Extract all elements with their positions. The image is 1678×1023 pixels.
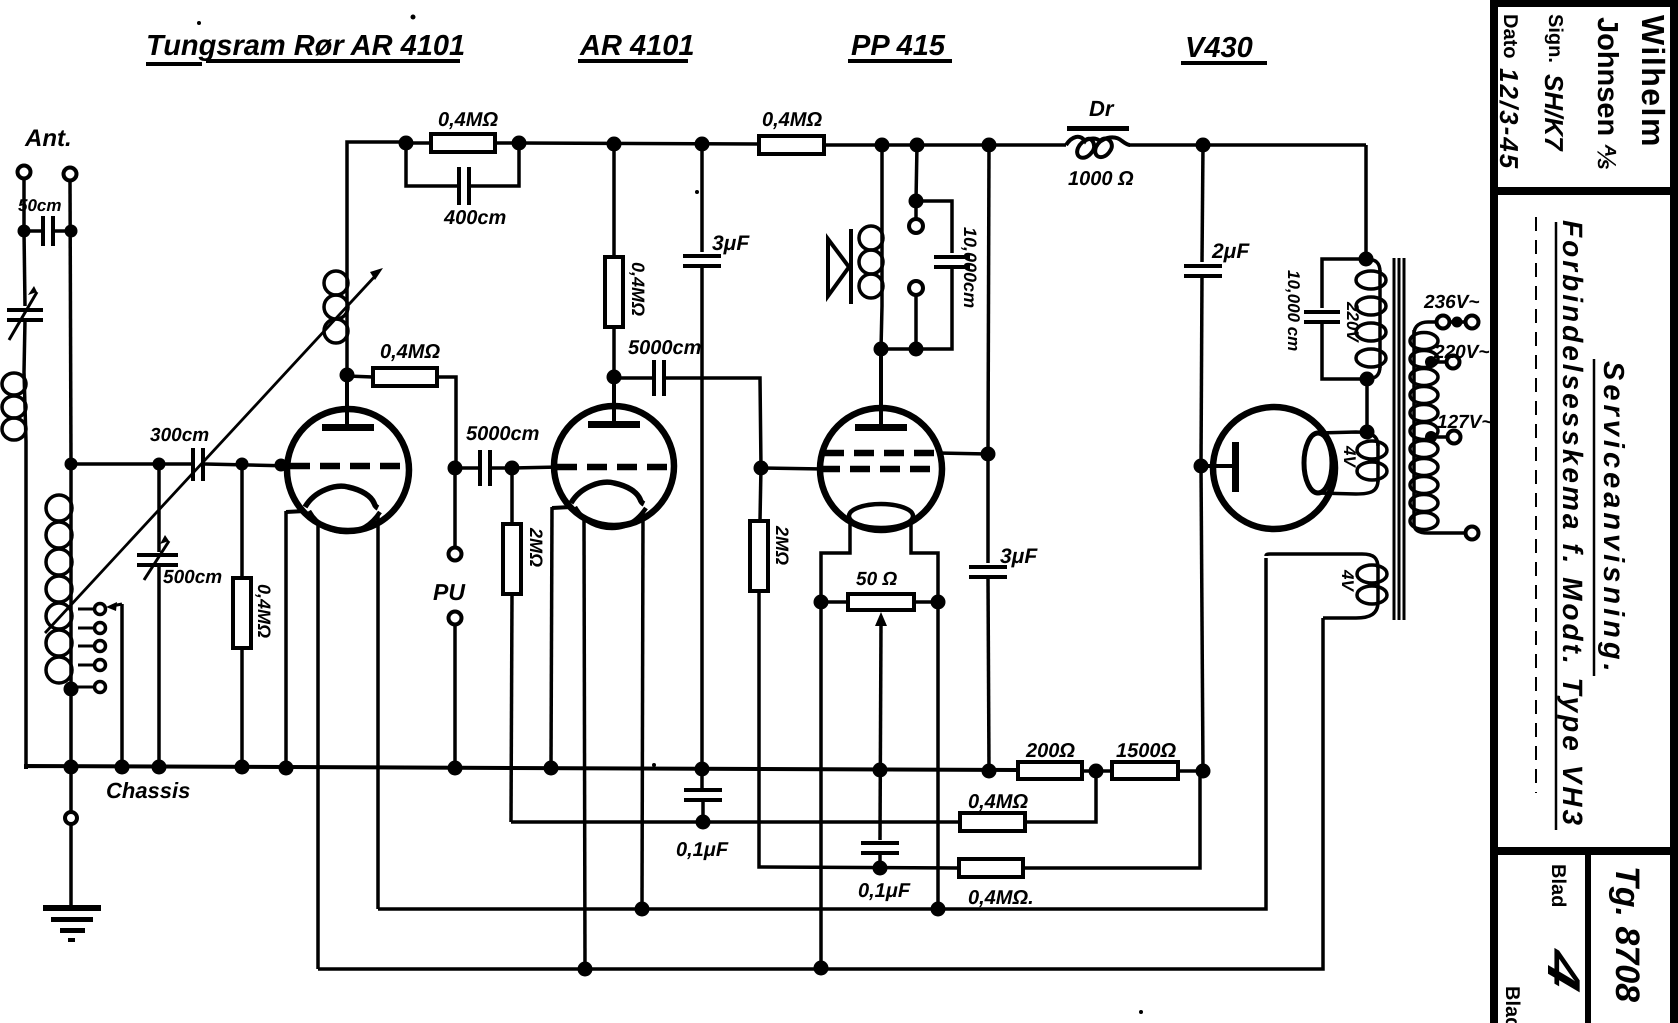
capacitor 400cm xyxy=(459,167,469,205)
svg-text:2MΩ: 2MΩ xyxy=(526,527,546,567)
wiper shaft xyxy=(880,624,881,840)
rectifier filament bottom wire xyxy=(1318,480,1378,494)
wire resistor to chassis xyxy=(240,648,244,767)
svg-text:5000cm: 5000cm xyxy=(628,337,701,359)
oscillator coil xyxy=(345,267,349,352)
svg-text:Blad: Blad xyxy=(1501,986,1523,1023)
tube V3 anode lead xyxy=(879,349,883,427)
svg-text:50 Ω: 50 Ω xyxy=(856,569,897,590)
resistor 1500 ohm xyxy=(1112,762,1178,779)
wire var cap to antenna coil xyxy=(24,320,25,372)
coil tap stub 1 xyxy=(78,608,94,611)
underline heading 2 xyxy=(578,59,688,63)
node bus x281 xyxy=(275,459,288,472)
node bias2 xyxy=(873,861,888,876)
node 50ohm right xyxy=(931,595,946,610)
wire chassis to earth xyxy=(69,767,73,812)
capacitor 5000cm a xyxy=(480,450,490,486)
jack wire lower xyxy=(914,295,918,349)
transformer core xyxy=(1394,258,1404,620)
wire node to 2M xyxy=(510,468,514,524)
wire rail to 3uF xyxy=(700,145,704,252)
svg-text:0,4MΩ: 0,4MΩ xyxy=(628,262,648,316)
svg-text:300cm: 300cm xyxy=(150,425,209,446)
node bus x71 xyxy=(65,458,78,471)
capacitor 3uF screen xyxy=(969,567,1007,577)
link dot 236V xyxy=(1452,317,1463,328)
tube V3 anode plate xyxy=(855,424,907,431)
node chassis x455 xyxy=(448,761,463,776)
capacitor 50cm xyxy=(24,216,71,246)
svg-text:220V: 220V xyxy=(1343,301,1362,343)
wire anode node to cap xyxy=(614,376,652,380)
wire V2 filament leg left xyxy=(584,520,585,969)
capacitor 2uF xyxy=(1184,266,1222,276)
PU terminal lower xyxy=(449,612,462,625)
wire cap to node xyxy=(455,466,512,470)
node primary top xyxy=(1359,252,1374,267)
bias line 1 wire xyxy=(511,820,960,824)
svg-text:Ant.: Ant. xyxy=(24,125,72,152)
node rail screen xyxy=(982,138,997,153)
secondary bottom lead xyxy=(1428,531,1466,535)
wire right antenna drop xyxy=(70,180,71,464)
coil tap stub 2 xyxy=(78,627,94,630)
svg-text:0,1μF: 0,1μF xyxy=(676,839,729,861)
tap 220V wire xyxy=(1431,360,1447,364)
tube V2 grid dashed xyxy=(557,464,674,471)
svg-text:Dr: Dr xyxy=(1089,96,1115,121)
svg-text:Blad: Blad xyxy=(1547,864,1569,907)
wire cap to tube3 grid node xyxy=(666,378,761,468)
node fil lower tube3 xyxy=(814,961,829,976)
ground symbol xyxy=(43,905,101,942)
filament bus lower wire xyxy=(318,618,1323,969)
wire V2 filament leg right xyxy=(642,512,643,909)
coil tap circle 5 xyxy=(95,682,106,693)
node fil lower tube2 xyxy=(578,962,593,977)
tube V1 cathode stub xyxy=(286,511,305,512)
capacitor 0.1uF b xyxy=(861,843,899,853)
coil tap circle 2 xyxy=(95,623,106,634)
underline Serviceanvisning xyxy=(1593,359,1596,676)
node chassis x286 xyxy=(279,761,294,776)
underline heading 1b xyxy=(206,59,460,63)
coil tap stub 3 xyxy=(78,645,94,648)
svg-text:127V~: 127V~ xyxy=(1437,412,1492,433)
node 0.1uF bottom xyxy=(696,815,711,830)
svg-text:Johnsen ⅍: Johnsen ⅍ xyxy=(1591,17,1623,169)
svg-text:0,4MΩ.: 0,4MΩ. xyxy=(968,887,1034,909)
svg-text:200Ω: 200Ω xyxy=(1025,740,1075,762)
wire V2 cathode to chassis xyxy=(551,507,552,768)
terminal 236V circle b xyxy=(1466,316,1479,329)
wire cap to bottom node xyxy=(916,267,952,349)
tube V2 cathode arc xyxy=(571,482,644,504)
wire rail to anode resistor xyxy=(612,145,616,257)
wire jack top to cap branch xyxy=(916,201,952,253)
ganged tuning arrow line xyxy=(45,268,383,633)
wire rail to primary top xyxy=(1364,145,1368,259)
wire avc1 to divider node xyxy=(1025,771,1096,822)
capacitor 0.1uF a xyxy=(684,790,722,800)
wiper arrowhead xyxy=(875,612,887,626)
wire rail segment a xyxy=(406,141,431,145)
primary winding 220V xyxy=(1366,259,1380,379)
coil tap stub 5 xyxy=(76,686,94,689)
wire antenna coil to chassis corner xyxy=(24,441,28,769)
node chassis x880 xyxy=(873,763,888,778)
wire osc riser to rail xyxy=(347,142,406,267)
secondary top lead xyxy=(1414,322,1437,334)
wire B+ drop mid xyxy=(1201,276,1202,466)
tube V2 filament arc xyxy=(575,507,646,528)
node 50ohm left xyxy=(814,595,829,610)
secondary winding mains xyxy=(1412,330,1416,524)
wire chassis bus xyxy=(26,766,1018,770)
node rectifier anode xyxy=(1194,459,1209,474)
capacitor 10000cm mains xyxy=(1304,312,1340,322)
node rail jack xyxy=(910,138,925,153)
node jack bottom xyxy=(909,342,924,357)
capacitor 300cm xyxy=(193,448,203,481)
node coupling right xyxy=(505,461,520,476)
svg-text:3μF: 3μF xyxy=(1000,545,1038,568)
underline heading 3 xyxy=(848,59,952,63)
wire 2M down to bias line xyxy=(511,594,512,822)
node fil upper tube3 xyxy=(931,902,946,917)
title block top border xyxy=(1494,0,1678,7)
underline heading 4 xyxy=(1181,61,1267,65)
resistor 2M det xyxy=(750,521,768,591)
node bus x159 xyxy=(153,458,166,471)
svg-text:10,000cm: 10,000cm xyxy=(960,227,980,308)
tube V2 anode plate xyxy=(588,421,640,428)
tube V1 filament arc xyxy=(309,511,380,532)
node chassis x702 xyxy=(695,762,710,777)
svg-text:1500Ω: 1500Ω xyxy=(1116,740,1176,762)
node coil bottom xyxy=(64,682,79,697)
speaker cone xyxy=(828,239,849,296)
svg-text:Dato: Dato xyxy=(1499,14,1521,58)
earth connector circle xyxy=(65,812,77,824)
svg-text:V430: V430 xyxy=(1185,32,1253,64)
capacitor 400cm branch wires xyxy=(406,143,519,186)
wire grid bus y464 xyxy=(71,464,292,466)
node coupling left xyxy=(448,461,463,476)
svg-text:50cm: 50cm xyxy=(18,196,61,215)
tube V4 anode plate xyxy=(1232,442,1239,492)
tap selector wire xyxy=(112,604,122,606)
PU terminal upper xyxy=(449,548,462,561)
tap 220V dot xyxy=(1425,356,1437,368)
node chassis x242 xyxy=(235,760,250,775)
svg-text:10,000 cm: 10,000 cm xyxy=(1284,270,1303,351)
antenna coil xyxy=(2,372,26,441)
node anode branch xyxy=(874,342,889,357)
wire V1 filament leg right xyxy=(376,516,380,909)
tube V1 envelope xyxy=(287,409,409,531)
tube V3 screen grid dashed xyxy=(824,450,941,457)
wire 3uF to chassis xyxy=(700,266,704,768)
wire filament to primary bottom xyxy=(1365,379,1369,432)
svg-text:0,1μF: 0,1μF xyxy=(858,880,911,902)
winding 4V heater coil xyxy=(1376,566,1380,604)
title block divider 1 xyxy=(1494,187,1678,195)
title block vertical divider xyxy=(1585,851,1591,1023)
tap selector arrowhead xyxy=(106,602,117,611)
resistor 0.4M avc2 xyxy=(959,859,1023,877)
terminal 220V xyxy=(1447,356,1460,369)
svg-text:Serviceanvisning.: Serviceanvisning. xyxy=(1597,361,1629,676)
wire 200 to node xyxy=(1082,769,1096,773)
node tube3 grid xyxy=(754,461,769,476)
node jack top xyxy=(909,194,924,209)
wire 50ohm leads xyxy=(821,600,938,604)
svg-text:4: 4 xyxy=(1538,942,1590,997)
wire osc node to resistor xyxy=(347,376,373,377)
wire avc2 to divider right xyxy=(1023,771,1200,868)
svg-text:Tungsram Rør AR 4101: Tungsram Rør AR 4101 xyxy=(146,30,465,62)
svg-text:4V: 4V xyxy=(1338,569,1357,592)
tube V1 anode lead xyxy=(345,375,349,427)
link 236V xyxy=(1450,320,1466,324)
terminal 127V xyxy=(1448,431,1461,444)
jack wire to contact xyxy=(914,201,918,219)
svg-text:1000 Ω: 1000 Ω xyxy=(1068,168,1134,190)
filament bus upper wire xyxy=(378,558,1266,909)
title block right border xyxy=(1670,0,1678,1023)
resistor 0.4M grid leak tube1 xyxy=(233,578,251,648)
svg-text:Wilhelm: Wilhelm xyxy=(1635,15,1671,148)
tube V1 cathode arc xyxy=(305,486,378,508)
svg-text:SH/K7: SH/K7 xyxy=(1539,74,1569,152)
tube V3 filament leg left xyxy=(821,523,850,968)
wire screen node to cap xyxy=(986,454,990,563)
arrowhead 500cm xyxy=(160,535,169,544)
jack contact upper xyxy=(909,219,923,233)
svg-text:Tg. 8708: Tg. 8708 xyxy=(1608,866,1646,1002)
scan speck b xyxy=(695,190,699,194)
resistor 0.4M series xyxy=(759,136,824,154)
coil tap circle 1 xyxy=(95,604,106,615)
resistor 200 ohm xyxy=(1018,762,1082,779)
wire PU to chassis xyxy=(453,624,457,767)
winding 4V heater bottom wire xyxy=(1323,602,1378,618)
node chassis x989 xyxy=(982,764,997,779)
output coil xyxy=(880,222,884,306)
CONTENT xyxy=(1184,145,1387,771)
coil tap circle 3 xyxy=(95,641,106,652)
wire B+ drop lower xyxy=(1201,466,1203,771)
node bus x242 xyxy=(236,458,249,471)
tube V4 envelope xyxy=(1213,407,1335,529)
wire rail to jack xyxy=(916,145,917,201)
wire resistor to PU node xyxy=(437,377,456,468)
node rail tube2 xyxy=(607,137,622,152)
bias line 2 wire xyxy=(759,592,959,868)
node screen junction xyxy=(981,447,996,462)
scan speck e xyxy=(1139,1010,1143,1014)
svg-text:220V~: 220V~ xyxy=(1433,342,1489,363)
tube V2 envelope xyxy=(554,406,674,526)
node rail B+ drop xyxy=(1196,138,1211,153)
wire B+ drop upper xyxy=(1202,145,1203,262)
antenna terminal right xyxy=(64,168,77,181)
terminal 236V circle a xyxy=(1437,316,1450,329)
wire resistor to anode node xyxy=(612,327,616,377)
wire bus to resistor xyxy=(240,464,244,578)
wire rail segment b xyxy=(495,141,519,145)
scan speck a xyxy=(411,15,416,20)
underline heading 1a xyxy=(146,62,202,66)
tube V4 anode lead xyxy=(1201,464,1233,468)
resistor 0.4M anode load xyxy=(605,257,623,327)
arrowhead variable capacitor antenna xyxy=(28,286,37,295)
svg-text:Sign.: Sign. xyxy=(1544,14,1566,63)
wire screen to bypass node xyxy=(938,453,988,454)
tube V3 envelope xyxy=(820,408,942,530)
wire PU drop xyxy=(453,468,457,548)
resistor 0.4M osc grid xyxy=(373,368,437,386)
svg-text:2μF: 2μF xyxy=(1211,240,1250,263)
choke Dr bar xyxy=(1067,126,1129,131)
wire 500cm to chassis xyxy=(157,565,161,767)
resistor 50ohm xyxy=(848,594,914,610)
tap 127V dot xyxy=(1425,431,1437,443)
node fil upper tube2 xyxy=(635,902,650,917)
wire V1 filament leg mid xyxy=(316,524,320,969)
svg-text:5000cm: 5000cm xyxy=(466,423,539,445)
tube V3 filament oval xyxy=(849,504,913,528)
node osc anode xyxy=(340,368,355,383)
svg-text:4V: 4V xyxy=(1340,445,1359,468)
wire coil bottom to chassis xyxy=(69,689,73,767)
svg-text:0,4MΩ: 0,4MΩ xyxy=(968,791,1028,813)
title block left border xyxy=(1490,0,1498,1023)
svg-text:PU: PU xyxy=(433,579,466,605)
svg-text:0,4MΩ: 0,4MΩ xyxy=(762,109,822,131)
choke Dr xyxy=(1066,137,1130,158)
wire left antenna drop xyxy=(22,178,26,231)
tube V1 grid dashed xyxy=(290,463,409,470)
node divider right xyxy=(1196,764,1211,779)
svg-text:Chassis: Chassis xyxy=(106,778,190,803)
variable capacitor 500cm xyxy=(137,541,178,580)
antenna terminal left xyxy=(18,166,31,179)
svg-text:400cm: 400cm xyxy=(443,207,506,229)
wire node to tube2 grid xyxy=(512,467,560,468)
svg-text:500cm: 500cm xyxy=(163,567,222,588)
wire to variable capacitor xyxy=(24,231,25,306)
tap 127V wire xyxy=(1431,435,1448,439)
node rail left xyxy=(399,136,414,151)
wire screen supply drop xyxy=(988,145,989,454)
wire V1 cathode to chassis xyxy=(284,511,288,768)
node tube2 anode xyxy=(607,370,622,385)
svg-text:PP 415: PP 415 xyxy=(851,30,946,62)
underline Forbindelsesskema xyxy=(1555,222,1558,830)
rectifier filament top wire xyxy=(1318,432,1378,446)
capacitor 10000cm mains wires xyxy=(1322,259,1367,379)
tube V3 filament leg right xyxy=(911,523,938,909)
node antenna right cap xyxy=(65,225,78,238)
node chassis x551 xyxy=(544,761,559,776)
capacitor 3uF interstage xyxy=(683,256,721,266)
node primary bottom xyxy=(1360,372,1375,387)
wire B+ rail xyxy=(519,143,1366,145)
tube V1 anode plate xyxy=(322,424,374,431)
node rail right xyxy=(512,136,527,151)
coil tap circle 4 xyxy=(95,660,106,671)
node filament top xyxy=(1360,425,1375,440)
tuning coil xyxy=(69,464,73,689)
wire node to 1500 xyxy=(1096,769,1112,773)
svg-text:0,4MΩ: 0,4MΩ xyxy=(380,341,440,363)
resistor 0.4M avc1 xyxy=(960,813,1025,831)
node chassis x122 xyxy=(115,760,130,775)
tube V2 cathode stub xyxy=(552,507,571,508)
winding 4V heater top wire xyxy=(1266,554,1378,568)
node rail speaker xyxy=(875,138,890,153)
terminal secondary bottom xyxy=(1466,527,1479,540)
title block divider 2 xyxy=(1494,847,1678,855)
capacitor 10000cm speaker xyxy=(934,257,970,267)
svg-text:12/3-45: 12/3-45 xyxy=(1494,68,1524,170)
wire bus to 500cm xyxy=(157,464,161,552)
wire node pair xyxy=(881,347,916,351)
coil tap stub 4 xyxy=(78,664,94,667)
winding 4V rect coil xyxy=(1376,444,1380,482)
tube V3 control grid dashed xyxy=(820,466,937,473)
svg-text:3μF: 3μF xyxy=(712,232,750,255)
resistor 2M grid leak tube2 xyxy=(503,524,521,594)
tube V4 filament loop xyxy=(1304,433,1332,493)
wire 0.1uF b lead xyxy=(878,853,882,868)
node divider mid xyxy=(1089,764,1104,779)
wire cap to chassis xyxy=(988,577,989,771)
variable capacitor antenna xyxy=(7,292,43,340)
wire grid node to tube V3 xyxy=(761,468,824,469)
svg-text:AR 4101: AR 4101 xyxy=(579,30,694,62)
wire 2M to grid node xyxy=(760,466,761,521)
capacitor 5000cm b xyxy=(654,360,664,396)
svg-text:Forbindelsesskema f. Modt. Typ: Forbindelsesskema f. Modt. Type VH3 xyxy=(1557,220,1588,828)
node antenna left cap xyxy=(18,225,31,238)
wire osc coil to node xyxy=(345,352,349,375)
resistor 0.4M top xyxy=(431,134,495,152)
dashed rule in title block xyxy=(1535,217,1537,793)
wire 0.1uF leads xyxy=(702,769,703,822)
tap selector drop wire xyxy=(120,604,124,767)
wire coil to anode node xyxy=(881,306,882,349)
svg-text:0,4MΩ: 0,4MΩ xyxy=(438,109,498,131)
svg-text:2MΩ: 2MΩ xyxy=(772,525,792,565)
node chassis x159 xyxy=(152,760,167,775)
speaker diaphragm line xyxy=(849,229,853,304)
wire 1500 to node right xyxy=(1178,769,1203,773)
wire rail to output coil xyxy=(880,145,884,222)
svg-text:0,4MΩ: 0,4MΩ xyxy=(254,584,274,638)
node rail 3uF xyxy=(695,137,710,152)
jack contact lower xyxy=(909,281,923,295)
tube V2 anode lead xyxy=(612,377,616,424)
svg-text:236V~: 236V~ xyxy=(1423,292,1479,313)
scan speck d xyxy=(652,763,656,767)
node chassis x71 xyxy=(64,760,79,775)
wire connector to earth xyxy=(69,824,73,906)
scan speck c xyxy=(197,21,201,25)
